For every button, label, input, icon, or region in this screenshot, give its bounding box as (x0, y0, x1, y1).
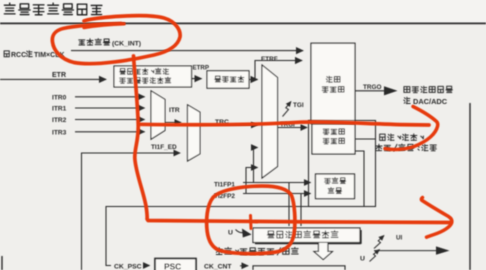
wire TRGI to slave mode controller (278, 127, 308, 129)
box auto-reload register 自动重装载寄存器 (253, 228, 360, 243)
svg-text:RCC: RCC (11, 52, 26, 59)
svg-text:ITR2: ITR2 (52, 117, 67, 124)
wire TI1FP1 down branch (288, 183, 290, 227)
red arrowhead flourish upper (385, 107, 438, 150)
wire into CNT (240, 265, 248, 267)
box counter CNT top edge (253, 266, 345, 270)
svg-text:TGI: TGI (293, 102, 304, 109)
mux TRGI selector (262, 65, 278, 178)
red oval around ARR (207, 186, 295, 254)
svg-text:ITR1: ITR1 (52, 106, 67, 113)
wire ETR (0, 78, 106, 80)
label 至其它定时器 (404, 86, 453, 92)
svg-text:U: U (228, 230, 233, 237)
svg-text:ITR3: ITR3 (52, 129, 67, 136)
mux ITR selector (151, 91, 165, 139)
wire TI1F_ED from bottom left (82, 153, 181, 270)
svg-text:TI1F_ED: TI1F_ED (151, 144, 177, 151)
zigzag event arrow U (370, 250, 380, 262)
svg-text:CK_CNT: CK_CNT (204, 264, 232, 270)
title underline rule (0, 22, 486, 24)
svg-text:ETRF: ETRF (261, 56, 278, 63)
wire into PSC (147, 265, 150, 267)
wire TI1FP1 riser to mux (254, 148, 258, 184)
wire TI1FP1 (243, 182, 311, 184)
label 复位、使能、向上/向下，计数 (380, 134, 424, 141)
wire ITR to second mux (165, 122, 181, 124)
red plus sign (245, 220, 258, 224)
wire ITR3 (75, 131, 145, 133)
wire ITR2 (75, 119, 145, 121)
box polarity/edge-detector/prescaler 极性选择、边沿检测和预分频器 (114, 66, 192, 87)
box encoder interface 编码器接口 (316, 174, 355, 199)
title 通用定时器框图 (4, 3, 102, 15)
wire TI2FP2 (243, 193, 311, 195)
box slave-mode section outline (309, 121, 376, 207)
box trigger controller 触发控制器 (311, 43, 355, 123)
mux TRC selector (188, 105, 201, 161)
svg-text:ETR: ETR (52, 72, 66, 79)
red horizontal arrow line upper (139, 122, 430, 125)
box PSC prescaler (155, 259, 196, 270)
label 内部时钟 (CK_INT) (79, 39, 110, 46)
box input filter 输入滤波 (207, 71, 249, 88)
svg-text:CK_PSC: CK_PSC (114, 264, 142, 270)
wire ETRF into TRGI mux (255, 79, 258, 81)
label 至 DAC/ADC (404, 97, 410, 103)
svg-text:TRGO: TRGO (363, 84, 381, 91)
red circle around 内部时钟(CK_INT) (52, 16, 180, 64)
frame left bottom edge (1, 256, 3, 270)
label 停止、清除或向上/向下 (216, 247, 298, 255)
wire TRGO (355, 90, 384, 92)
svg-text:DAC/ADC: DAC/ADC (413, 97, 448, 106)
wire slave ctrl output L2 (355, 151, 364, 206)
red horizontal line lower through ARR (147, 219, 451, 223)
red circle overshoot stroke (84, 24, 124, 28)
wire ITR0 (75, 96, 145, 98)
wire CK_INT to trigger controller (71, 50, 303, 52)
svg-text:(CK_INT): (CK_INT) (112, 41, 141, 48)
hollow update arrow below ARR (314, 243, 332, 260)
wire slave ctrl output L1 (355, 138, 376, 140)
wire ETRF up and to trigger controller (249, 61, 302, 80)
svg-text:UI: UI (396, 235, 402, 242)
wire ETRP (192, 78, 202, 80)
svg-text:U: U (360, 256, 365, 263)
red arrowhead flourish lower (421, 198, 452, 238)
frame right edge (469, 103, 471, 270)
svg-text:ITR0: ITR0 (52, 94, 67, 101)
box slave mode controller 从模式控制器 (312, 124, 355, 154)
long arrow right of U (374, 250, 436, 252)
wire TI2FP2 down branch (300, 194, 302, 227)
svg-text:PSC: PSC (164, 262, 181, 270)
svg-text:ITR: ITR (169, 107, 180, 114)
wire TI2FP2 riser to mux (246, 168, 258, 195)
red long vertical line (134, 56, 148, 219)
zigzag event arrow to UI (374, 236, 384, 249)
wire ITR1 (75, 107, 145, 109)
wire CK_PSC long horizontal (106, 207, 376, 266)
wire TRC (200, 124, 258, 126)
label 自RCC的TIMxCLK (4, 51, 9, 57)
